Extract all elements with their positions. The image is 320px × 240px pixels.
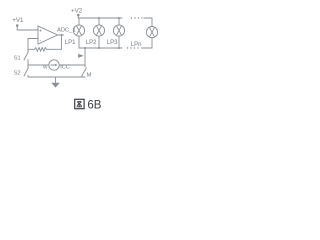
svg-text:LP3: LP3	[107, 40, 118, 46]
svg-text:S2: S2	[14, 71, 21, 77]
svg-text:LPn: LPn	[131, 42, 142, 48]
svg-text:LP1: LP1	[65, 40, 76, 46]
svg-text:S1: S1	[14, 56, 21, 62]
svg-text:+V1: +V1	[12, 17, 24, 24]
svg-text:ADC_1: ADC_1	[57, 28, 76, 34]
svg-text:6B: 6B	[87, 100, 101, 112]
svg-text:W: W	[43, 65, 48, 70]
svg-text:LP2: LP2	[86, 40, 97, 46]
svg-text:+V2: +V2	[71, 7, 83, 14]
svg-text:ICC: ICC	[60, 65, 70, 71]
svg-text:+: +	[39, 29, 42, 35]
svg-text:M: M	[87, 72, 92, 78]
